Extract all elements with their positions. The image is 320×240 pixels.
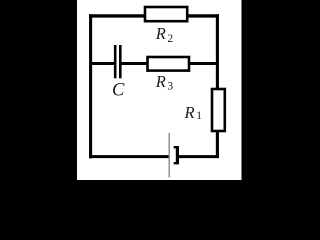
svg-text:2: 2 — [167, 33, 173, 45]
resistor R2 — [145, 7, 187, 21]
svg-text:R: R — [155, 72, 166, 91]
svg-text:1: 1 — [196, 110, 202, 122]
wire: left side of loop — [89, 14, 92, 158]
svg-text:C: C — [112, 81, 125, 101]
svg-text:3: 3 — [167, 81, 173, 93]
wire: middle branch with C and R3 — [92, 62, 115, 65]
wire: right side of loop — [216, 14, 219, 157]
wire: top side of loop — [89, 14, 219, 17]
background panel — [0, 0, 320, 180]
wire: bottom side, right segment from battery — [176, 155, 219, 158]
battery long plate — [168, 133, 170, 178]
wire: bottom side, left segment to battery — [89, 155, 169, 158]
svg-text:R: R — [184, 103, 195, 122]
svg-text:R: R — [155, 24, 166, 43]
resistor R1 — [212, 89, 225, 131]
resistor R3 — [148, 57, 190, 71]
capacitor C plates — [114, 45, 117, 78]
battery short plate — [174, 147, 178, 163]
